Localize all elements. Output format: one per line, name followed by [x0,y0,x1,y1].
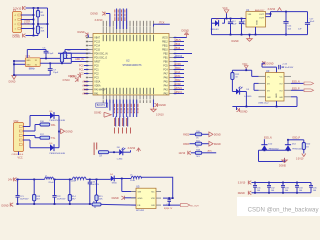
svg-text:RXD3: RXD3 [175,64,182,66]
svg-text:SDA1: SDA1 [175,75,182,78]
resistor R18 [195,149,216,157]
svg-text:PB12: PB12 [162,42,168,44]
svg-text:PB1: PB1 [163,58,168,60]
svg-text:10K: 10K [99,198,103,200]
ground DGND regulator [232,34,253,44]
MCU inner pin names [94,35,168,96]
svg-text:PC1: PC1 [79,70,84,72]
diode D6 PESD (bottom) [23,140,65,155]
ground DGND bottom-right of MCU [151,100,166,117]
svg-text:22uH: 22uH [48,182,53,184]
svg-text:MISO1: MISO1 [175,92,183,94]
svg-text:VSSA: VSSA [94,81,101,84]
capacitor C24 22uF/25V polarized [88,179,100,204]
wire U3 vcc rail [232,69,258,76]
svg-text:PC15: PC15 [94,50,100,52]
connector CN2 [12,120,24,156]
wire crystal ground run [13,74,50,76]
IC U5 MT2492 [131,185,161,213]
svg-text:NRST: NRST [94,62,101,64]
svg-text:TXD2: TXD2 [175,80,182,82]
resistor R12 1K [231,73,240,92]
diode D5 PESD (top) [23,111,65,127]
svg-text:I/O: I/O [267,83,270,85]
resistor R20 [288,140,311,154]
svg-text:3.3V10: 3.3V10 [296,158,304,160]
svg-text:PC2: PC2 [79,74,84,76]
diode D2 SS34 [211,19,225,32]
svg-text:DGND: DGND [232,40,239,43]
capacitor C17 10uF [283,12,315,35]
capacitor C32 104 [267,183,275,193]
svg-text:SCL1: SCL1 [175,72,182,74]
svg-text:MT2492: MT2492 [136,210,145,212]
svg-text:DGND: DGND [70,77,77,79]
ground DGND row2 [209,141,221,146]
capacitor C15 10uF/16V [277,64,294,73]
power 12V10 row [179,151,196,155]
svg-text:PC14: PC14 [94,46,100,48]
svg-text:DGND: DGND [267,62,274,65]
svg-text:RXL: RXL [51,125,56,127]
wire crystal X1 row [40,53,88,59]
svg-text:GND: GND [276,93,278,98]
ground DGND above U3 [262,61,277,67]
svg-text:DGND: DGND [214,134,221,136]
svg-text:ESD_N: ESD_N [292,81,300,83]
svg-text:VD33: VD33 [162,38,168,40]
diode D14 PESD [285,143,303,150]
power 3.3V10 below R20 [296,154,306,161]
svg-text:L-934ID: L-934ID [244,96,252,98]
svg-text:DGND: DGND [112,197,119,200]
svg-text:CSDN @on_the_backway: CSDN @on_the_backway [248,206,320,213]
svg-text:PC13: PC13 [94,42,100,44]
svg-text:PESD0402: PESD0402 [292,149,303,151]
wire 3.3V rail from P1 area [26,7,48,38]
wire rail L1 to L2 [54,179,73,181]
wires VDD vertical feeds with net labels [114,9,126,30]
svg-text:GN: GN [267,97,271,99]
diode D10 PESD [261,143,279,150]
capacitor C12 22uF [228,19,237,35]
capacitor C6 15pF (top) [27,48,54,59]
svg-text:VCC: VCC [18,157,23,160]
ground DGND ESD pair [279,165,286,168]
wire L3 around to VIN [142,177,174,199]
power 3.3V10 cap row [238,181,252,185]
ground DGND below crystal [9,76,17,84]
svg-text:15pF: 15pF [48,53,54,55]
svg-text:10K: 10K [41,30,45,32]
power 3.3V net label top-left [13,6,26,10]
svg-text:VC: VC [267,76,270,78]
wire regulator input rail [212,18,247,35]
wire crystal left gnd bus [13,60,25,75]
svg-text:DGND: DGND [182,30,190,33]
svg-text:RXD2: RXD2 [183,134,190,136]
svg-text:DGND: DGND [66,130,73,133]
svg-text:SS34-E3: SS34-E3 [211,29,220,31]
svg-text:DGND: DGND [13,34,21,38]
svg-text:VC: VC [279,76,282,78]
wire U3 bottom + DGND [232,97,297,114]
svg-text:GND: GND [26,60,31,62]
svg-text:15pF: 15pF [53,72,59,74]
net label cluster 3 below MCU [114,128,131,134]
IC U3 USBLC6-2 [258,69,291,105]
svg-text:PA0 WKUP: PA0 WKUP [94,89,106,92]
capacitor C7 15pF (bottom) [48,63,59,75]
svg-text:PC1: PC1 [94,70,99,72]
wire SW tap [122,179,136,192]
wire regulator ground tab [212,27,284,36]
svg-text:DGND: DGND [238,192,245,195]
svg-text:3.3V10: 3.3V10 [268,8,276,11]
resistor R9 1K (inline bottom rail) [92,202,101,209]
svg-text:PC5: PC5 [163,66,168,68]
svg-text:DGND: DGND [279,165,286,168]
resistor R2 10K [33,23,45,36]
wire crystal X2 row [40,58,88,64]
svg-text:PD1 OSC_O: PD1 OSC_O [94,58,107,60]
capacitor C22 22uF/25V [52,179,66,204]
inductor L1 22uH [45,175,54,184]
diode D4 SS56 [110,174,131,185]
svg-text:3.3V10: 3.3V10 [128,147,136,150]
power 3.3V10 output label [268,8,282,11]
svg-text:MOSI1: MOSI1 [175,88,183,90]
capacitor C33 104 [281,183,289,193]
svg-text:3.3V10: 3.3V10 [156,114,164,117]
svg-text:+C15: +C15 [282,64,288,66]
svg-text:VIN: VIN [151,198,155,200]
net label ESD_P [287,138,300,145]
svg-text:R(R)4.7V: R(R)4.7V [164,208,173,210]
connector P1 CON4 [13,9,22,36]
svg-text:I/O: I/O [280,83,283,85]
svg-text:U2: U2 [126,58,130,62]
svg-text:PB10: PB10 [162,50,168,52]
svg-text:AIN1: AIN1 [82,85,88,88]
svg-text:12V10: 12V10 [179,153,186,155]
ground DGND below P1 [13,34,34,39]
svg-text:PC0: PC0 [94,66,99,68]
net label cluster 2 below MCU [114,117,128,127]
svg-text:PB11: PB11 [162,46,168,48]
svg-text:PC0: PC0 [79,66,84,68]
svg-text:5V_OUT: 5V_OUT [190,206,199,208]
ground DGND mid ladder [112,196,136,200]
crystal CY1 8MHz [25,55,40,70]
off-page output arrow [163,204,199,208]
ground DGND cap row [238,191,252,195]
resistor R6 10K (reset pullup) [58,50,91,59]
MCU left/right pin stubs [86,37,176,95]
svg-text:I/O: I/O [280,90,283,92]
svg-text:22uF/25V: 22uF/25V [20,199,29,201]
svg-text:SS56: SS56 [112,183,118,185]
svg-text:DGND: DGND [159,104,167,107]
svg-text:3.3V10: 3.3V10 [238,182,246,185]
net label OSC32 top right of MCU [154,22,170,27]
power 3.3V10 label top of MCU [95,19,104,22]
net labels MCU right side [174,40,193,94]
net label ADC row left of MCU [75,58,84,61]
svg-text:DGND: DGND [91,13,99,16]
wire regulator output [266,11,308,17]
resistor R1 10K [36,8,48,25]
resistor R14 4K7 [68,179,76,204]
svg-text:VIN: VIN [248,14,252,16]
svg-text:AIN3: AIN3 [82,93,88,96]
svg-text:X2: X2 [35,64,37,66]
svg-text:1K: 1K [99,156,102,158]
svg-text:TXD3: TXD3 [175,68,182,70]
svg-text:ESD_N: ESD_N [264,138,272,140]
resistor R16 [23,121,56,131]
svg-text:PD0 OSC_IN: PD0 OSC_IN [94,54,108,56]
capacitor C21 22uF/25V [16,179,30,204]
svg-text:PESDF508-SUB: PESDF508-SUB [50,120,66,122]
svg-text:GND: GND [257,20,259,25]
power 24V input [8,177,17,181]
LED D8 [117,147,131,160]
resistor R11 1K [195,140,209,148]
wire cap row rails [252,182,312,194]
resistor R15 10K [95,179,104,205]
resistor R13 4K7 [33,179,41,204]
svg-text:PC4: PC4 [163,70,168,72]
wires U3 left side [254,83,259,90]
svg-text:VBAT: VBAT [94,37,100,40]
svg-text:ESD_P: ESD_P [292,88,300,90]
svg-text:PC3: PC3 [94,78,99,80]
ground DGND label near MCU left [68,74,80,78]
svg-text:DGND: DGND [2,205,9,208]
regulator U1 AMS1117-3.3 [246,8,266,27]
svg-text:OUT: OUT [259,17,264,19]
svg-text:22uF: 22uF [232,24,237,26]
svg-text:8MHz: 8MHz [29,68,36,70]
svg-text:3.3V10: 3.3V10 [95,19,104,22]
svg-text:DGND: DGND [94,112,101,115]
svg-text:PESDF508-SUB: PESDF508-SUB [50,153,66,155]
svg-text:ADC12: ADC12 [175,55,183,58]
svg-text:DGND: DGND [240,110,247,113]
power 3.3V10 label near MCU left [62,78,78,82]
svg-text:DGND: DGND [214,144,221,146]
net label BOOT0 [96,100,108,108]
net label RXD3 row [183,144,195,146]
wire ladder bottom rail + DGND [2,203,137,208]
svg-text:NC: NC [151,192,155,194]
svg-text:ADC: ADC [208,149,213,152]
svg-text:22uH: 22uH [130,180,135,182]
svg-text:RXD3: RXD3 [183,144,190,146]
ground DGND row1 [209,132,221,137]
wires U3 right side to off-page [291,81,314,91]
svg-text:AIN0: AIN0 [82,81,88,84]
svg-text:L-934: L-934 [117,158,123,160]
wires MCU bottom vertical nets with labels [113,100,138,118]
capacitor C31 104 [253,183,261,193]
svg-text:3.3V10: 3.3V10 [62,80,70,82]
svg-text:EN: EN [151,205,154,207]
svg-text:DGND: DGND [9,81,16,83]
svg-text:DGND: DGND [78,31,85,34]
wire ESD pair ground [259,149,292,162]
op: MCU body U2 STM32F103RCT6 [93,34,169,96]
svg-text:10uF/16V: 10uF/16V [285,67,294,69]
power VCC below CN2 [18,152,23,160]
net label RXD2 row [183,134,195,136]
svg-text:I/O: I/O [267,90,270,92]
svg-text:VDDA: VDDA [94,85,101,88]
ground DGND left of MCU top [78,31,89,38]
resistor R5 1M (crystal parallel) [60,53,71,63]
svg-text:10K: 10K [41,15,45,17]
resistor R7 1K [99,151,120,158]
ground DGND top of MCU [91,12,110,27]
power 3.3V10 right of LED [128,147,141,152]
svg-text:22uF/25V: 22uF/25V [90,184,99,186]
net label vertical near R7 [94,143,98,156]
svg-text:AIN2: AIN2 [82,89,88,92]
svg-text:VBUS: VBUS [175,40,182,42]
svg-text:PB13: PB13 [175,48,181,50]
svg-text:PB0: PB0 [163,62,168,64]
inductor L2 22uH [71,177,86,183]
capacitor C26 104 [164,197,173,210]
wire ladder top rail [16,179,44,181]
svg-text:22uH: 22uH [71,181,76,183]
resistor R17 [23,134,56,140]
svg-text:DCIN: DCIN [24,23,30,26]
decorative white area [237,197,320,216]
power VCC for U3 [242,63,248,70]
svg-text:OUT: OUT [259,14,264,16]
svg-text:STM32F103RCT6: STM32F103RCT6 [123,65,143,67]
capacitor C13 104 [239,19,248,35]
svg-text:24V: 24V [8,178,13,181]
ground DGND at MCU top-right corner [174,30,190,38]
inductor L3 22uH [130,175,142,182]
wire rail L2 to D4 [86,179,110,181]
svg-text:X1: X1 [35,60,37,62]
wire ESD diode common + DGND [58,116,73,148]
net label ESD_N [264,138,272,145]
svg-text:22uF/25V: 22uF/25V [57,199,66,201]
capacitor C35 104 [309,183,317,193]
svg-text:PB12: PB12 [175,44,181,46]
svg-text:GN: GN [279,97,283,99]
svg-text:GND: GND [26,64,31,66]
svg-text:TXL: TXL [51,138,56,140]
power VCC input [223,7,229,19]
wires P1 pins to bus [21,14,34,29]
svg-text:GND: GND [138,198,143,200]
capacitor C14 104 [283,12,302,36]
ground DGND bottom-left of MCU [94,100,111,118]
resistor R10 1K [195,131,209,139]
svg-text:ADC_IN: ADC_IN [75,58,84,61]
capacitor C34 104 [295,183,303,193]
svg-text:10uF: 10uF [310,21,315,23]
LED D9 [232,87,252,107]
MCU top/bottom pin stubs [103,21,154,103]
svg-text:USBLC6-2: USBLC6-2 [258,103,269,105]
net labels MCU left side [70,66,89,96]
svg-text:PB2: PB2 [163,54,168,56]
svg-text:BOOT0: BOOT0 [97,104,106,107]
net labels USB5V / DCIN [24,19,31,25]
svg-text:RXD2: RXD2 [175,84,182,86]
svg-text:PC2: PC2 [94,74,99,76]
